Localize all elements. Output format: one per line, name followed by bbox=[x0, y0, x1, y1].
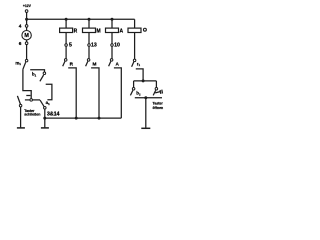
svg-text:M: M bbox=[97, 28, 101, 34]
svg-text:R: R bbox=[74, 28, 78, 34]
svg-text:öffnen: öffnen bbox=[153, 106, 164, 110]
svg-text:M: M bbox=[24, 33, 29, 39]
svg-text:schließen: schließen bbox=[24, 112, 40, 116]
svg-text:13: 13 bbox=[91, 43, 97, 49]
svg-text:b1: b1 bbox=[32, 72, 37, 78]
svg-text:m1: m1 bbox=[15, 60, 21, 66]
svg-text:4: 4 bbox=[19, 24, 22, 30]
svg-text:5: 5 bbox=[69, 43, 72, 49]
svg-text:+12V: +12V bbox=[23, 4, 32, 8]
svg-text:r1: r1 bbox=[137, 61, 141, 67]
svg-text:b2: b2 bbox=[136, 91, 141, 97]
svg-text:A: A bbox=[120, 28, 124, 34]
svg-text:a1: a1 bbox=[46, 100, 51, 106]
svg-text:10: 10 bbox=[114, 43, 120, 49]
svg-text:M: M bbox=[93, 61, 97, 66]
svg-text:3&14: 3&14 bbox=[47, 111, 60, 117]
svg-text:6: 6 bbox=[19, 41, 22, 47]
